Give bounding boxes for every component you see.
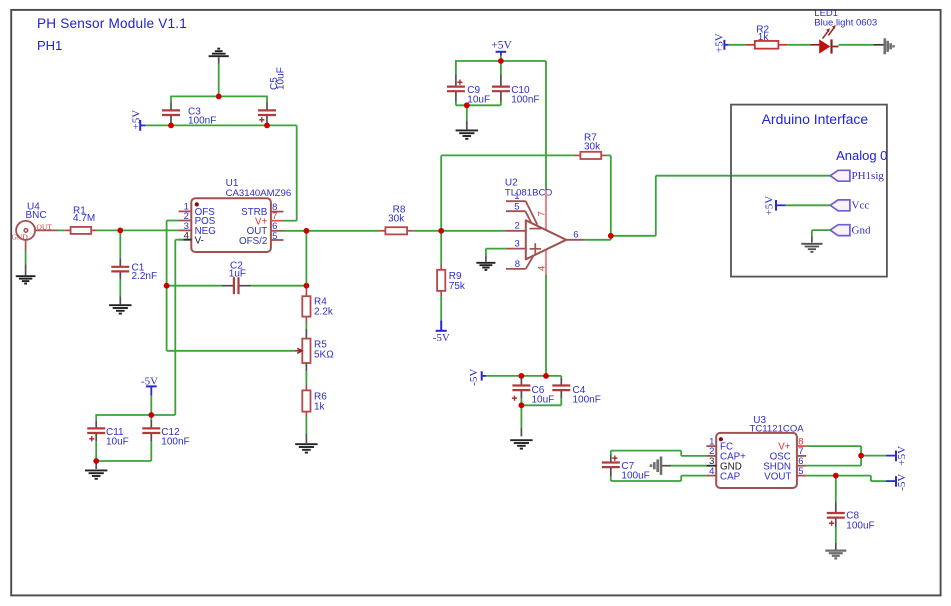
node junction dot at 441.2,230.8	[438, 228, 444, 234]
svg-text:PH1: PH1	[37, 38, 62, 53]
svg-text:7: 7	[537, 211, 548, 216]
node junction dot at 521.4,405.3	[519, 402, 525, 408]
ground at Gnd flag	[801, 243, 822, 245]
svg-text:PH Sensor Module V1.1: PH Sensor Module V1.1	[37, 16, 187, 31]
svg-text:-5V: -5V	[433, 332, 450, 344]
wire U3 V+ to +5V	[806, 445, 861, 447]
U2 pin 5 stub	[506, 210, 525, 212]
wire feedback vertical	[440, 155, 442, 230]
wire U1 OUT to R8	[284, 230, 380, 232]
wire +5V rail down to U1 V+	[296, 125, 298, 220]
capacitor C12 100nF	[150, 415, 152, 420]
svg-text:100nF: 100nF	[573, 395, 601, 406]
svg-text:4: 4	[709, 466, 714, 477]
wire feedback row	[441, 154, 574, 156]
wire -5V to node	[150, 396, 152, 415]
U1 pin 5 OFS/2	[271, 239, 284, 241]
svg-text:CA3140AMZ96: CA3140AMZ96	[226, 188, 292, 199]
ground under C8	[825, 549, 846, 551]
wire R8 to U2 inverting input	[413, 230, 506, 232]
svg-text:OFS/2: OFS/2	[239, 236, 267, 247]
U1 pin 1 OFS	[179, 210, 192, 212]
wire +5V rail to U2 V+	[545, 61, 547, 190]
svg-text:+5V: +5V	[491, 40, 512, 52]
capacitor C11 10uF	[95, 421, 97, 428]
capacitor C2 1uF	[222, 285, 233, 287]
op-amp U1 CA3140AMZ96 body	[191, 198, 271, 252]
resistor R2 1k	[745, 44, 755, 46]
U1 pin 4 V-	[179, 239, 192, 241]
svg-text:4: 4	[536, 266, 547, 271]
svg-text:Analog 0: Analog 0	[836, 148, 887, 163]
ground right of LED	[883, 38, 886, 54]
svg-text:BNC: BNC	[26, 210, 47, 221]
U2 pin 3 stub	[506, 248, 526, 250]
wire U1 POS loop	[167, 220, 179, 222]
U3 pin 1 FC	[706, 445, 716, 447]
node junction dot at 521.4,375.9	[519, 373, 525, 379]
svg-text:5KΩ: 5KΩ	[314, 350, 334, 361]
svg-text:100nF: 100nF	[161, 437, 189, 448]
svg-text:1k: 1k	[314, 401, 326, 412]
svg-text:VOUT: VOUT	[764, 471, 791, 482]
svg-text:V-: V-	[195, 235, 204, 246]
svg-text:10uF: 10uF	[467, 95, 490, 106]
wire output to Arduino	[611, 235, 656, 237]
U2 pin 4 V- stub	[545, 250, 547, 275]
capacitor C1 2.2nF	[119, 259, 121, 266]
svg-text:-5V: -5V	[468, 369, 480, 386]
svg-text:+5V: +5V	[896, 446, 908, 466]
U2 pin 8 stub	[506, 268, 526, 270]
svg-text:100uF: 100uF	[846, 520, 874, 531]
wire -5V rail to C11	[96, 414, 151, 416]
svg-text:Arduino Interface: Arduino Interface	[762, 111, 869, 127]
svg-text:4.7M: 4.7M	[73, 213, 95, 224]
wire rail corner down to C3 top	[170, 96, 172, 103]
connector U4 BNC	[16, 221, 35, 240]
node junction dot at 610.8,235.8	[608, 233, 614, 239]
wire +5V rail	[456, 60, 546, 62]
wire C11/C12 bottoms	[96, 460, 151, 462]
wire C6/C4 bottoms	[521, 404, 561, 406]
svg-text:5: 5	[514, 201, 519, 212]
svg-text:6: 6	[573, 230, 578, 241]
wire to ground	[466, 105, 468, 121]
charge pump U3 TC1121COA body	[716, 433, 797, 488]
svg-text:10uF: 10uF	[276, 67, 287, 90]
ground under C9/C10	[456, 129, 478, 131]
wire U3 VOUT	[806, 475, 871, 477]
U1 pin 3 NEG	[179, 229, 192, 231]
U2 pin 2 stub	[506, 230, 526, 232]
resistor R6 1k	[302, 390, 310, 411]
svg-text:2: 2	[515, 220, 520, 231]
wire R9 to -5V	[440, 296, 442, 320]
supply +5V right	[861, 455, 886, 457]
wire output	[584, 239, 610, 241]
svg-text:5: 5	[798, 466, 803, 477]
svg-text:TC1121COA: TC1121COA	[750, 424, 805, 435]
supply -5V right	[870, 476, 872, 482]
svg-text:+5V: +5V	[130, 110, 142, 130]
ground under BNC	[16, 275, 36, 277]
svg-text:-5V: -5V	[896, 474, 908, 491]
capacitor C9 10uF	[455, 60, 457, 75]
resistor R7 30k	[575, 154, 581, 156]
wire U1 V- down	[184, 239, 192, 241]
LED LED1 Blue light 0603	[811, 44, 820, 46]
resistor R4 2.2k	[305, 287, 307, 296]
U3 pin 2 CAP+	[706, 455, 716, 457]
ground at U3 GND	[660, 457, 663, 475]
wire Vcc	[786, 204, 831, 206]
node junction dot at 151.3,415	[148, 412, 154, 418]
svg-text:100uF: 100uF	[621, 471, 649, 482]
wire C2 row left	[167, 285, 222, 287]
supply -5V under R9	[436, 330, 447, 332]
U3 pin 6 SHDN	[797, 465, 806, 467]
U2 pin 6 output stub	[566, 239, 584, 241]
node junction dot at 546.0,375.9	[543, 373, 549, 379]
wire to ground	[520, 405, 522, 428]
wire ground to rail	[218, 64, 220, 97]
wire BNC gnd	[25, 251, 27, 265]
node junction dot at 861.1,455.6	[858, 453, 864, 459]
node junction dot at 120.3,230.4	[117, 228, 123, 234]
node junction dot at 96.2,461	[93, 458, 99, 464]
wire U2 pin4 down to -5V rail	[545, 274, 547, 376]
wire +5V rail	[146, 124, 297, 126]
node junction dot at 166.6,285.7	[164, 283, 170, 289]
U3 pin 8 V+	[797, 445, 806, 447]
ground under R6	[295, 443, 317, 445]
wire rail corner down to C5 top	[266, 96, 268, 103]
U2 non-inverting input marker	[530, 248, 541, 250]
wire C9/C10 gnd rail	[456, 104, 501, 106]
svg-text:2.2nF: 2.2nF	[132, 271, 158, 282]
wire R7 to output node	[607, 154, 611, 156]
Arduino Interface frame	[731, 105, 887, 277]
node junction dot at 466.8,105.3	[464, 102, 470, 108]
flag Gnd	[830, 225, 850, 236]
svg-text:PH1sig: PH1sig	[852, 170, 885, 182]
svg-text:Vcc: Vcc	[852, 200, 870, 212]
ground under C6	[510, 439, 532, 441]
U3 pin 7 OSC	[797, 455, 806, 457]
node junction dot at 267,125.4	[264, 123, 270, 129]
U3 pin 3 GND	[706, 465, 716, 467]
ground under C1	[109, 304, 131, 306]
wire R5 to R6	[305, 363, 307, 371]
node junction dot at 306.4,230.8	[304, 228, 310, 234]
svg-text:1uF: 1uF	[229, 269, 246, 280]
svg-text:Blue light 0603: Blue light 0603	[814, 17, 877, 28]
svg-text:GND: GND	[12, 233, 29, 242]
U1 pin 6 OUT	[271, 230, 284, 232]
node junction dot at 218.7,96.4	[216, 94, 222, 100]
svg-text:1k: 1k	[758, 32, 770, 43]
LED arrows	[823, 31, 828, 38]
svg-text:30k: 30k	[584, 142, 601, 153]
wire C1 to ground	[119, 280, 121, 297]
U2 triangle body	[526, 220, 566, 259]
svg-text:Gnd: Gnd	[852, 224, 871, 236]
wire OUT node down to R4	[305, 231, 307, 287]
U3 pin 4 CAP	[706, 475, 716, 477]
svg-text:+5V: +5V	[764, 196, 776, 216]
wire down to C1	[119, 230, 121, 258]
capacitor C10 100nF	[500, 61, 502, 75]
wire U3 GND to ground	[671, 465, 706, 467]
U2 pin 1 stub	[506, 200, 526, 202]
svg-text:OUT: OUT	[37, 222, 53, 231]
capacitor C7 100uF	[610, 455, 612, 462]
flag PH1sig	[830, 170, 850, 181]
resistor R8 30k	[380, 230, 386, 232]
U1 pin 7 V+	[271, 220, 284, 222]
node junction dot at 500.9,61	[498, 58, 504, 64]
ground top of C3/C5 rail	[209, 55, 229, 57]
flag Vcc	[830, 200, 850, 211]
svg-text:5: 5	[272, 231, 277, 242]
wire C7 bottom to U3 CAP	[610, 477, 612, 481]
U1 pin 2 POS	[179, 220, 192, 222]
svg-text:2.2k: 2.2k	[314, 307, 334, 318]
wire U3 SHDN to +5V	[806, 465, 861, 467]
capacitor C3 100nF	[170, 102, 172, 109]
U2 inverting input marker	[530, 228, 542, 230]
wire to ground	[95, 461, 97, 469]
potentiometer R5 5K	[302, 339, 310, 363]
ground under C11	[85, 469, 107, 471]
wire wiper row	[167, 350, 296, 352]
svg-text:8: 8	[515, 259, 520, 270]
wire C2 to R4 node	[251, 285, 306, 287]
capacitor C5 10uF	[266, 102, 268, 109]
resistor R9 75k	[440, 231, 442, 265]
svg-text:75k: 75k	[449, 281, 466, 292]
ground at U2 pin3	[476, 262, 495, 264]
wire -5V rail	[486, 375, 561, 377]
resistor R1 4.7M	[65, 229, 71, 231]
wire Gnd flag to ground	[812, 229, 830, 231]
node junction dot at 306.4,285.7	[304, 283, 310, 289]
svg-text:100nF: 100nF	[511, 95, 539, 106]
capacitor C4 100nF	[560, 376, 562, 378]
wire BNC to R1	[58, 229, 65, 231]
U1 pin 8 STRB	[271, 211, 284, 213]
svg-text:30k: 30k	[388, 214, 405, 225]
wire R1 to U1 NEG	[97, 229, 178, 231]
wire C7 top to U3 CAP+	[610, 451, 612, 455]
node junction dot at 171,125.4	[168, 123, 174, 129]
wire gnd rail C3-C5	[171, 95, 267, 97]
wire R4 to R5	[305, 322, 307, 329]
U2 pin 7 V+ stub	[545, 190, 547, 230]
wire LED to ground	[839, 44, 874, 46]
node junction dot at 835.8,475.6	[833, 473, 839, 479]
svg-text:10uF: 10uF	[532, 395, 555, 406]
wire U2 pin3 to ground	[486, 248, 506, 250]
capacitor C6 10uF	[520, 376, 522, 378]
wire +5V to R2	[729, 44, 746, 46]
capacitor C8 100uF	[835, 476, 837, 502]
svg-text:10uF: 10uF	[106, 437, 129, 448]
U3 pin 5 VOUT	[797, 475, 806, 477]
supply +5V left	[139, 120, 141, 131]
wire R2 to LED	[787, 44, 810, 46]
svg-text:CAP: CAP	[720, 471, 741, 482]
wire R6 to ground	[305, 417, 307, 435]
svg-text:3: 3	[515, 238, 520, 249]
